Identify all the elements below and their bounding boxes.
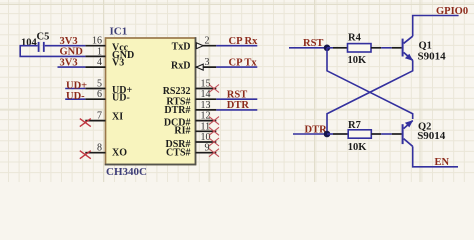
wire Q2 collector to EN xyxy=(413,146,458,166)
no-ERC cross pin 11 xyxy=(209,127,219,135)
IC1 body xyxy=(106,38,196,165)
svg-text:5: 5 xyxy=(97,79,102,90)
svg-text:11: 11 xyxy=(201,121,211,132)
svg-text:R4: R4 xyxy=(348,32,362,43)
wire RST junction to Q2 emitter (cross wire) xyxy=(327,48,413,119)
pin 12 (DCD#) xyxy=(164,111,216,129)
svg-text:GND: GND xyxy=(60,47,84,58)
svg-text:GPIO0: GPIO0 xyxy=(436,6,468,17)
svg-text:6: 6 xyxy=(97,89,102,100)
pin 4 (V3) xyxy=(85,57,124,69)
svg-text:TxD: TxD xyxy=(172,42,191,53)
wire RST to junction xyxy=(289,47,327,49)
svg-text:CP Rx: CP Rx xyxy=(229,36,259,47)
pin 10 (DSR#) xyxy=(165,132,216,150)
svg-text:UD-: UD- xyxy=(112,93,130,104)
wire DTR from pin 13 xyxy=(216,109,257,111)
wire R4 to Q1 base xyxy=(371,47,381,49)
R7 left pin xyxy=(333,133,348,135)
wire CP Rx from pin 2 xyxy=(216,45,257,47)
pin 9 (CTS#) xyxy=(166,143,216,159)
junction node RST xyxy=(324,45,331,52)
wire junction to R7 xyxy=(327,133,333,135)
junction node DTR xyxy=(324,131,331,138)
R4 left pin xyxy=(333,47,348,49)
svg-text:10K: 10K xyxy=(348,55,368,66)
svg-text:S9014: S9014 xyxy=(418,50,447,62)
wire Q1 emitter to DTR junction (cross wire) xyxy=(327,60,413,134)
pin 8 (XO) xyxy=(85,143,127,159)
pin 7 (XI) xyxy=(85,111,123,123)
no-ERC cross pin 12 xyxy=(209,117,219,125)
pin 13 (DTR#) xyxy=(164,100,216,116)
capacitor C5 xyxy=(39,42,44,52)
svg-text:10: 10 xyxy=(201,132,211,143)
svg-text:V3: V3 xyxy=(112,58,124,69)
transistor Q2 (S9014 NPN) xyxy=(402,120,414,146)
svg-text:UD-: UD- xyxy=(66,91,85,102)
svg-text:IC1: IC1 xyxy=(110,26,128,38)
resistor R4 body xyxy=(348,44,372,52)
svg-text:R7: R7 xyxy=(348,120,361,131)
resistor R7 body xyxy=(348,130,371,138)
wire GND: C5 left plate down and to pin 1 xyxy=(20,46,85,57)
svg-text:CH340C: CH340C xyxy=(106,166,147,178)
svg-text:RST: RST xyxy=(227,90,247,101)
svg-text:RST: RST xyxy=(303,38,323,49)
svg-text:S9014: S9014 xyxy=(417,130,446,142)
svg-text:1: 1 xyxy=(97,46,102,57)
wire DTR to junction xyxy=(293,133,327,135)
svg-text:16: 16 xyxy=(92,36,102,47)
pin 6 (UD-) xyxy=(85,89,129,103)
svg-text:8: 8 xyxy=(97,143,102,154)
svg-text:EN: EN xyxy=(435,157,450,168)
wire Q1 collector to GPIO0 xyxy=(413,16,459,37)
pin 1 (GND) xyxy=(85,46,134,60)
wire UD+ to pin 5 xyxy=(65,88,85,90)
pin 3 (RxD) with input arrow xyxy=(171,57,216,72)
svg-text:XO: XO xyxy=(112,148,127,159)
svg-text:13: 13 xyxy=(201,100,211,111)
wire junction to R4 xyxy=(327,47,333,49)
no-ERC cross pin 10 xyxy=(209,138,219,146)
svg-text:XI: XI xyxy=(112,112,123,123)
pin 14 (RTS#) xyxy=(166,89,216,107)
svg-text:DTR#: DTR# xyxy=(164,105,190,116)
wire 3V3 stub to pin 4 xyxy=(58,66,86,68)
pin 2 (TxD) with output arrow xyxy=(172,36,217,53)
svg-text:RI#: RI# xyxy=(174,126,190,137)
svg-text:3: 3 xyxy=(205,57,210,68)
svg-text:2: 2 xyxy=(205,36,210,47)
svg-text:DTR: DTR xyxy=(227,100,250,111)
svg-text:C5: C5 xyxy=(37,31,50,42)
pin 16 (Vcc) xyxy=(85,36,128,54)
svg-text:UD+: UD+ xyxy=(66,80,87,91)
transistor Q1 (S9014 NPN) xyxy=(402,36,414,61)
wire RST from pin 14 xyxy=(216,98,257,100)
wire UD- to pin 6 xyxy=(65,98,85,100)
pin 11 (RI#) xyxy=(174,121,216,136)
svg-text:12: 12 xyxy=(201,111,211,122)
svg-text:9: 9 xyxy=(205,143,210,154)
no-ERC cross pin 8 xyxy=(80,151,91,159)
svg-text:CP Tx: CP Tx xyxy=(229,57,258,68)
svg-text:10K: 10K xyxy=(348,142,368,153)
svg-text:104: 104 xyxy=(21,38,38,49)
svg-text:RxD: RxD xyxy=(171,61,190,72)
wire R7 to Q2 base xyxy=(371,133,381,135)
pin 15 (RS232) xyxy=(163,79,217,98)
svg-text:14: 14 xyxy=(201,89,211,100)
wire 3V3: C5 right plate to pin 16 xyxy=(45,45,86,47)
svg-text:CTS#: CTS# xyxy=(166,148,190,159)
no-ERC cross pin 15 xyxy=(209,85,219,93)
wire CP Tx from pin 3 xyxy=(216,66,257,68)
svg-text:DTR: DTR xyxy=(305,124,328,135)
svg-text:3V3: 3V3 xyxy=(60,57,78,68)
svg-text:3V3: 3V3 xyxy=(60,36,78,47)
svg-text:4: 4 xyxy=(97,57,102,68)
svg-text:7: 7 xyxy=(97,111,102,122)
svg-text:15: 15 xyxy=(201,79,211,90)
pin 5 (UD+) xyxy=(85,79,132,97)
no-ERC cross pin 9 xyxy=(209,149,219,157)
no-ERC cross pin 7 xyxy=(80,119,91,127)
